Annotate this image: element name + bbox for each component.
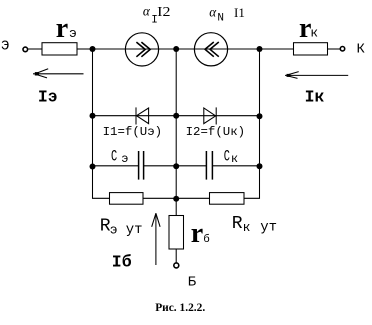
svg-text:Рис. 1.2.2.: Рис. 1.2.2. [155, 300, 205, 314]
svg-text:ут: ут [260, 219, 277, 235]
node E1 junction dot [90, 46, 96, 52]
label r_б [191, 218, 210, 249]
label Cэ [111, 147, 129, 166]
svg-text:Б: Б [188, 275, 197, 291]
svg-text:Э: Э [1, 39, 9, 55]
current source U1 alpha_I*I2 [125, 33, 158, 66]
wire diode row [93, 115, 260, 117]
label alpha_N I1 [209, 5, 245, 25]
resistor r_э [42, 43, 77, 55]
svg-text:α: α [209, 5, 217, 20]
resistor Rэ_ут [110, 193, 144, 205]
wire r_к to collector terminal [328, 48, 341, 50]
svg-text:Iэ: Iэ [38, 88, 58, 107]
node dot diode row middle [173, 113, 179, 119]
svg-text:э: э [69, 26, 77, 41]
label Rэ_ут [100, 217, 143, 238]
wire node B-top through current source to node C1 [176, 48, 259, 50]
resistor r_б [169, 216, 184, 250]
svg-text:r: r [191, 218, 203, 249]
svg-text:C: C [224, 148, 230, 166]
svg-text:I1: I1 [234, 5, 245, 20]
wire emitter terminal to r_э [28, 48, 42, 50]
svg-text:R: R [232, 214, 243, 234]
svg-text:Iк: Iк [305, 88, 325, 107]
wire capacitor row middle segment [144, 165, 206, 167]
svg-text:I2: I2 [157, 5, 170, 20]
svg-text:к: к [243, 220, 251, 235]
wire node C1 to r_к [260, 48, 294, 50]
wire right rail (collector) [244, 49, 260, 198]
capacitor Cк [206, 151, 212, 180]
wire left rail (emitter) [93, 49, 110, 198]
diode VD2 I2 [204, 107, 216, 124]
wire r_б to base terminal [175, 249, 177, 263]
svg-text:r: r [56, 13, 68, 44]
node dot cap row left [90, 164, 96, 170]
resistor Rк_ут [210, 193, 245, 205]
node dot diode row right [257, 113, 263, 119]
svg-text:К: К [357, 41, 366, 57]
node dot cap row middle [173, 163, 179, 169]
resistor r_к [294, 43, 328, 55]
svg-text:N: N [217, 13, 224, 25]
svg-text:α: α [143, 4, 151, 19]
label alpha_I I2 [143, 4, 171, 27]
wire r_э to node E1 [77, 48, 93, 50]
svg-text:C: C [111, 147, 117, 165]
wire capacitor row left segment [93, 165, 139, 167]
svg-text:к: к [310, 26, 318, 41]
svg-text:б: б [203, 233, 210, 246]
terminal Э [23, 47, 28, 52]
svg-text:Iб: Iб [112, 252, 132, 271]
svg-text:к: к [231, 152, 238, 166]
label r_к [299, 13, 318, 44]
label Rк_ут [232, 214, 277, 236]
terminal К [340, 47, 344, 51]
node C1 junction dot [257, 46, 263, 52]
label r_э [56, 13, 77, 44]
wire capacitor row right segment [213, 165, 260, 167]
terminal Б [174, 263, 179, 268]
diode VD1 I1 [136, 107, 149, 124]
current source U2 alpha_N*I1 [194, 33, 227, 66]
node dot cap row right [257, 163, 263, 169]
capacitor Cэ [139, 151, 144, 180]
svg-text:ут: ут [126, 222, 143, 238]
svg-text:э: э [110, 223, 118, 238]
arrow Iб [152, 213, 160, 265]
arrow Iк [285, 72, 348, 79]
arrow Iэ [33, 69, 84, 78]
wire leakage resistor row [110, 197, 245, 199]
label Cк [224, 148, 238, 166]
svg-text:э: э [121, 152, 128, 166]
svg-text:I2=f(Uк): I2=f(Uк) [186, 125, 246, 139]
node B-top junction dot [173, 46, 179, 52]
svg-text:I1=f(Uэ): I1=f(Uэ) [103, 125, 163, 139]
wire middle rail (base) [175, 49, 177, 216]
node dot diode row left [90, 113, 96, 119]
wire node E1 through current source to node B-top [93, 48, 177, 50]
node dot resistor row middle [173, 196, 179, 202]
